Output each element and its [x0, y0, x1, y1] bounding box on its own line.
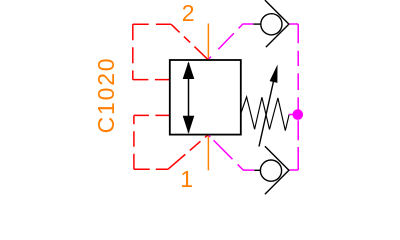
- wire: black port stub into bottom check valve: [254, 169, 260, 171]
- wire: magenta stub from spring end to junction dot: [289, 114, 294, 116]
- adjustability arrow through spring: [259, 65, 278, 147]
- wire: orange centerline stub, port 2 (top): [207, 24, 209, 61]
- wire: magenta stub from top check valve to right rail: [290, 23, 299, 25]
- wire: orange centerline stub, port 1 (bottom): [207, 134, 209, 170]
- wire: red dashed pilot line, top bracket upper horizontal: [133, 23, 171, 25]
- check valve CV2 (bottom): seat: [265, 146, 289, 194]
- wire: red dashed pilot line, bottom bracket left vertical: [133, 115, 135, 169]
- wire: magenta dashed right rail (vertical): [297, 24, 299, 170]
- wire: red dashed pilot line, bottom bracket upper horizontal to valve body: [134, 114, 169, 116]
- wire: red dashed pilot line, top bracket left vertical: [132, 24, 134, 79]
- spring: adjustment spring zigzag: [241, 97, 289, 131]
- svg-text:C1020: C1020: [93, 57, 119, 134]
- check valve CV2 (bottom): ball: [260, 160, 281, 181]
- check valve CV1 (top): seat: [265, 0, 289, 47]
- wire: red dashed pilot line, top bracket lower horizontal to valve body: [133, 79, 170, 81]
- valve flow path: double-headed vertical arrow inside envelope: [183, 61, 195, 133]
- wire: red dashed pilot line, top bracket diagonal to port 2 node: [171, 24, 208, 60]
- valve body: pressure reducing valve envelope U1: [170, 60, 241, 135]
- wire: black port stub into top check valve: [253, 23, 261, 25]
- check valve CV1 (top): ball: [261, 14, 282, 35]
- wire: magenta stub from right rail to bottom check valve: [290, 169, 299, 171]
- svg-text:2: 2: [182, 0, 195, 26]
- wire: magenta dashed drain line from port 1 node to bottom check valve: [209, 136, 254, 171]
- wire: red dashed pilot line, bottom bracket lower horizontal: [134, 168, 168, 170]
- svg-text:1: 1: [180, 166, 193, 192]
- node: magenta junction dot on drain rail: [293, 109, 304, 120]
- wire: red dashed pilot line, bottom bracket diagonal to port 1 node: [168, 135, 209, 170]
- wire: magenta dashed drain line from port 2 node to top check valve: [209, 24, 254, 59]
